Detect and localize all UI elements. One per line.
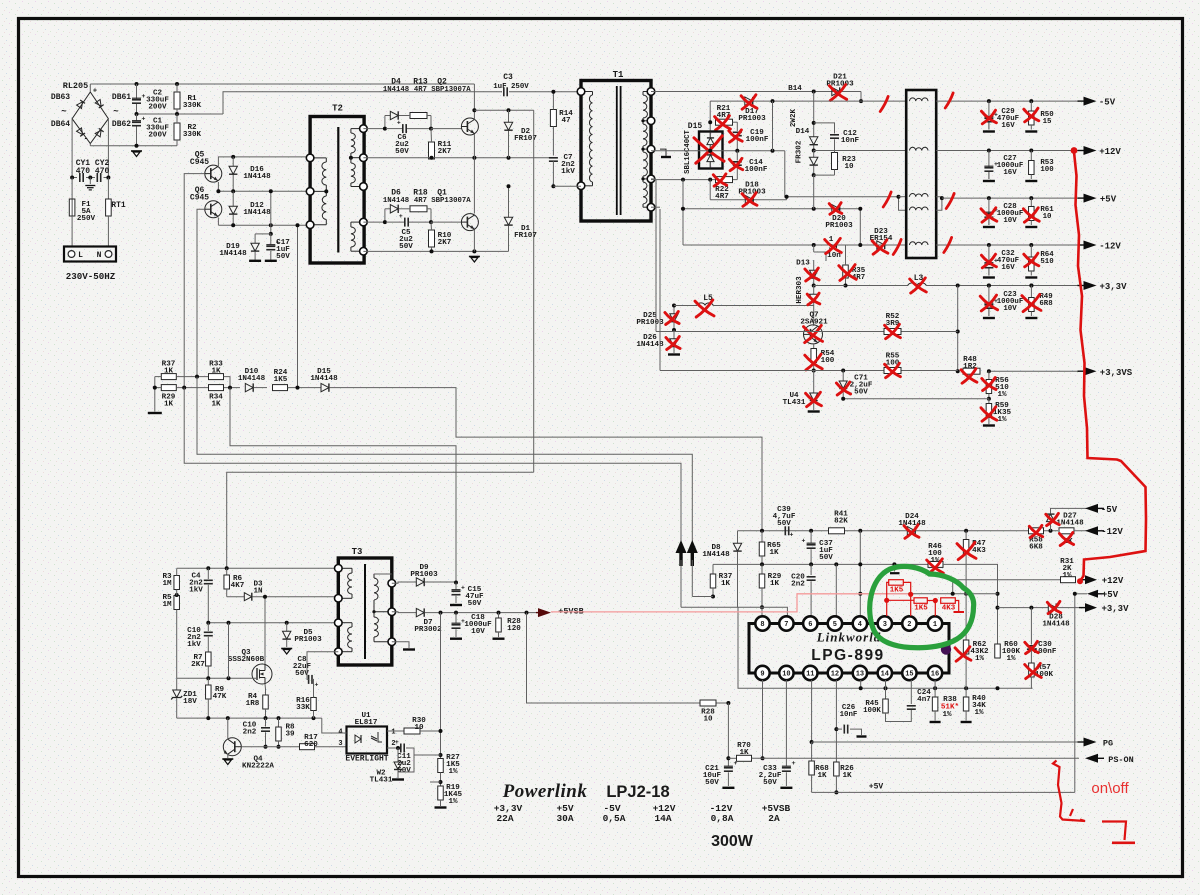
red junction c <box>933 598 938 603</box>
transistor Q7 <box>804 325 823 344</box>
junction <box>812 243 816 247</box>
inductor L5 <box>674 305 697 307</box>
pin 7 U2 <box>779 616 793 630</box>
pin 8 U2 <box>755 616 769 630</box>
diode D6 <box>385 208 390 210</box>
capacitor C26 <box>836 728 842 730</box>
svg-text:4K3: 4K3 <box>972 547 986 555</box>
wire R29 line <box>176 387 240 389</box>
svg-text:1K: 1K <box>211 400 221 408</box>
wire <box>407 128 431 130</box>
wire bridge left leg <box>71 119 73 177</box>
svg-text:4R7: 4R7 <box>414 86 427 94</box>
wire Q4 base line <box>241 746 299 748</box>
junction <box>933 686 937 690</box>
svg-text:10nF: 10nF <box>840 711 858 719</box>
junction <box>206 566 210 570</box>
junction <box>1073 592 1077 596</box>
svg-text:+: + <box>93 88 97 96</box>
junction <box>858 243 862 247</box>
wire Q2 collector <box>473 84 475 120</box>
diode D14 <box>810 137 818 145</box>
capacitor C1 <box>136 114 138 121</box>
label C31 cluster <box>813 245 815 252</box>
svg-text:+: + <box>142 116 146 123</box>
resistor R52 <box>884 329 901 335</box>
ground <box>722 787 734 789</box>
svg-text:LPG-899: LPG-899 <box>811 647 884 664</box>
junction <box>844 284 848 288</box>
junction <box>507 108 511 112</box>
svg-text:1%: 1% <box>1062 572 1072 580</box>
diode D10 <box>245 383 253 391</box>
svg-text:50V: 50V <box>399 243 413 251</box>
ground <box>1025 317 1037 319</box>
ground <box>780 787 792 789</box>
diode D7 <box>392 611 416 614</box>
junction <box>964 592 968 596</box>
transistor Q1 <box>461 214 478 231</box>
arrow -12V out2 <box>1085 526 1098 535</box>
wire <box>90 145 177 147</box>
resistor R11 <box>429 142 435 159</box>
fault X mark <box>872 241 888 253</box>
pin T2-R5 <box>360 247 368 255</box>
fault X mark <box>957 544 976 559</box>
junction <box>349 156 353 160</box>
diode D1 <box>508 186 510 217</box>
wire <box>72 177 77 179</box>
diode D19 <box>254 234 256 243</box>
junction <box>809 562 813 566</box>
junction <box>454 581 458 585</box>
junction <box>396 746 400 750</box>
svg-text:1N4148: 1N4148 <box>383 197 409 205</box>
junction <box>859 99 863 103</box>
pin T2-L1 <box>306 154 314 162</box>
svg-text:100K: 100K <box>863 707 881 715</box>
resistor R6 <box>226 568 228 575</box>
svg-text:-12V: -12V <box>1101 527 1123 537</box>
resistor R59 <box>988 399 990 404</box>
fault X mark <box>804 327 823 342</box>
junction <box>726 756 730 760</box>
resistor R29b <box>761 564 763 574</box>
svg-text:1M: 1M <box>162 580 172 588</box>
pin T1-R3 <box>647 145 655 153</box>
red check mark <box>893 240 901 255</box>
junction <box>858 562 862 566</box>
svg-text:3: 3 <box>338 740 342 748</box>
wire pin13 col <box>860 680 862 688</box>
ground <box>1025 276 1037 278</box>
junction <box>439 729 443 733</box>
wire R28-10 line <box>527 613 729 703</box>
wire Q4 emitter <box>227 754 229 758</box>
junction <box>1049 529 1053 533</box>
wire Q3 source <box>264 684 267 689</box>
junction <box>858 529 862 533</box>
svg-text:330K: 330K <box>183 102 202 110</box>
junction <box>439 780 443 784</box>
svg-text:~: ~ <box>113 107 118 117</box>
svg-text:47K: 47K <box>213 693 227 701</box>
resistor R40 <box>965 688 967 697</box>
svg-text:PG: PG <box>1103 739 1113 749</box>
wire D14 col lower <box>813 175 815 209</box>
svg-text:10: 10 <box>703 715 713 723</box>
svg-text:10: 10 <box>1043 213 1052 221</box>
red switch contact <box>1102 822 1126 841</box>
wire D15 column top <box>709 101 711 131</box>
ground <box>249 260 261 262</box>
ground <box>131 150 142 152</box>
red ground <box>954 611 965 613</box>
junction <box>834 727 838 731</box>
fault X mark <box>1025 665 1042 678</box>
fault X mark <box>829 86 846 100</box>
wire C10 line <box>208 622 338 624</box>
arrow PG <box>1084 738 1097 747</box>
shunt regulator U4 TL431 <box>813 371 815 394</box>
pin 5 U2 <box>828 616 842 630</box>
red repair wire right side <box>1074 152 1146 581</box>
arrow +12V <box>1084 146 1097 155</box>
resistor R54 <box>813 344 815 348</box>
green circle annotation <box>870 566 974 647</box>
junction <box>227 676 231 680</box>
svg-text:+: + <box>399 213 403 220</box>
junction <box>672 328 676 332</box>
wire PG line <box>812 741 1079 743</box>
resistor R60 <box>995 644 1001 658</box>
wire <box>1057 607 1079 609</box>
svg-text:50V: 50V <box>395 148 409 156</box>
ground <box>983 226 995 228</box>
wire pin11 col <box>811 680 813 742</box>
svg-text:1: 1 <box>391 729 395 737</box>
junction <box>106 176 110 180</box>
junction <box>834 562 838 566</box>
wire under-IC line <box>738 607 1032 688</box>
resistor R62 <box>965 594 967 640</box>
wire opto pin4 <box>322 718 347 733</box>
ground <box>1025 130 1037 132</box>
svg-text:1kV: 1kV <box>189 586 203 594</box>
red junction a <box>884 598 889 603</box>
signal arrow up 2 <box>687 540 698 553</box>
red check mark <box>946 194 954 209</box>
resistor R56 <box>988 371 990 379</box>
junction <box>1029 284 1033 288</box>
svg-text:1%: 1% <box>1006 655 1016 663</box>
svg-text:+5V: +5V <box>1100 195 1117 205</box>
svg-text:C945: C945 <box>190 194 209 203</box>
svg-text:33K: 33K <box>296 704 310 712</box>
junction <box>231 155 235 159</box>
svg-text:470 470: 470 470 <box>76 167 110 176</box>
svg-text:PS-ON: PS-ON <box>1108 755 1134 765</box>
junction <box>708 149 712 153</box>
wire T2 pin3 tap down <box>297 225 299 387</box>
wire +5V rail <box>942 197 1079 199</box>
svg-text:1K: 1K <box>164 367 174 375</box>
ground <box>668 353 680 355</box>
junction <box>269 189 273 193</box>
svg-text:100: 100 <box>1040 166 1054 174</box>
fault X mark <box>665 313 679 324</box>
junction <box>940 196 944 200</box>
pin 14 U2 <box>878 666 892 680</box>
wire pin15 col <box>910 680 912 704</box>
svg-text:50V: 50V <box>705 779 719 787</box>
wire C21 col <box>727 703 729 766</box>
pin T2-R1 <box>360 125 368 133</box>
junction <box>681 207 685 211</box>
diode D8 <box>737 531 739 543</box>
svg-text:PR1003: PR1003 <box>738 115 766 123</box>
wire mid line <box>651 150 785 152</box>
wire Q6 emitter line <box>217 218 219 226</box>
svg-text:N: N <box>97 251 102 260</box>
transistor Q6 <box>205 201 222 218</box>
svg-text:50V: 50V <box>777 520 791 528</box>
capacitor C37 <box>810 531 812 543</box>
junction <box>987 284 991 288</box>
wire <box>86 177 95 179</box>
svg-text:1%: 1% <box>448 798 458 806</box>
diode D27 <box>1050 522 1052 531</box>
resistor R16 <box>311 698 317 711</box>
fault X mark <box>1022 296 1041 311</box>
wire Q2 base branch <box>363 128 385 130</box>
wire <box>137 113 224 115</box>
arrow -5V <box>1084 97 1097 106</box>
junction <box>1029 196 1033 200</box>
diode D5 <box>286 623 288 631</box>
capacitor C39 <box>784 526 786 535</box>
wire Q1 base branch <box>363 221 385 223</box>
svg-text:2K7: 2K7 <box>438 239 452 247</box>
wire D25 col <box>673 306 675 315</box>
junction <box>812 90 816 94</box>
junction <box>277 716 281 720</box>
capacitor C33 <box>782 767 791 769</box>
svg-text:PR1003: PR1003 <box>410 571 438 579</box>
pin T3-L4 <box>335 648 343 656</box>
junction <box>264 716 268 720</box>
junction <box>841 369 845 373</box>
ground T3 lower <box>392 642 409 648</box>
wire divider left <box>155 376 162 378</box>
fault X mark <box>1047 602 1060 612</box>
fault X mark <box>839 266 856 280</box>
junction <box>383 220 387 224</box>
fault X mark <box>806 393 822 405</box>
junction <box>760 529 764 533</box>
svg-text:+3,3V: +3,3V <box>1101 604 1129 614</box>
fault X mark <box>729 131 742 141</box>
resistor R14 <box>550 110 556 127</box>
optocoupler U1 EL817 <box>347 727 388 754</box>
wire source bottom line <box>177 717 322 719</box>
junction <box>296 386 300 390</box>
wire pin5 col <box>835 564 837 616</box>
fault X mark <box>695 301 714 316</box>
capacitor C6 <box>402 124 404 133</box>
resistor R48 <box>963 368 980 374</box>
resistor R8 <box>278 718 280 727</box>
svg-text:0,5A: 0,5A <box>603 813 626 824</box>
pin T1-R1 <box>647 88 655 96</box>
junction <box>472 108 476 112</box>
resistor R65 <box>761 531 763 542</box>
junction <box>227 621 231 625</box>
svg-text:6: 6 <box>808 621 812 629</box>
junction <box>996 606 1000 610</box>
resistor R44 <box>1059 528 1074 534</box>
svg-text:200V: 200V <box>148 131 167 139</box>
wire pin8 line <box>681 607 787 616</box>
junction <box>987 369 991 373</box>
junction <box>231 223 235 227</box>
svg-text:1N: 1N <box>253 587 263 595</box>
resistor R27 <box>440 755 442 758</box>
svg-text:TL431: TL431 <box>370 776 393 784</box>
junction <box>987 149 991 153</box>
fault X mark <box>982 379 996 390</box>
junction <box>708 120 712 124</box>
red mod wire +5VSB to network <box>551 594 908 612</box>
svg-text:2K7: 2K7 <box>438 148 452 156</box>
pin 9 U2 <box>755 666 769 680</box>
svg-text:Powerlink: Powerlink <box>502 781 588 802</box>
capacitor C15 <box>455 583 457 590</box>
resistor R18 <box>410 206 427 212</box>
fault X mark <box>713 175 726 185</box>
svg-text:4K7: 4K7 <box>231 582 245 590</box>
wire C19 col <box>736 122 738 131</box>
svg-text:100nF: 100nF <box>746 136 769 144</box>
svg-text:15: 15 <box>1043 118 1052 126</box>
wire R46 corner <box>943 564 998 644</box>
fault X mark <box>741 96 757 108</box>
junction <box>551 184 555 188</box>
pin 15 U2 <box>902 666 916 680</box>
ground <box>661 156 671 158</box>
wire standby feed down <box>227 472 534 568</box>
wire +3.3V fb line <box>998 607 1049 609</box>
junction <box>859 686 863 690</box>
ground <box>983 180 995 182</box>
wire Q6-base net down <box>197 377 692 541</box>
shunt regulator W2 TL431 <box>397 748 399 762</box>
resistor R70 <box>737 755 752 761</box>
wire Q1 base <box>431 221 461 223</box>
junction <box>760 605 764 609</box>
resistor R35 <box>825 258 827 261</box>
pin 12 U2 <box>828 666 842 680</box>
capacitor C30 <box>1030 608 1032 645</box>
ground <box>469 256 480 258</box>
wire D20 line <box>682 180 684 245</box>
diode D15b <box>321 383 329 391</box>
junction <box>956 369 960 373</box>
wire bridge right leg <box>107 119 109 177</box>
resistor R23 <box>832 153 838 170</box>
svg-text:+12V: +12V <box>1102 576 1124 586</box>
svg-text:1: 1 <box>933 621 937 629</box>
junction <box>672 304 676 308</box>
svg-text:1%: 1% <box>448 768 458 776</box>
mosfet Q3 SSS2N60B <box>252 664 272 684</box>
wire R33 corner <box>224 377 231 388</box>
svg-text:DB62: DB62 <box>112 120 131 129</box>
svg-text:16V: 16V <box>1001 122 1015 130</box>
resistor R1 <box>174 92 180 109</box>
svg-text:50V: 50V <box>468 600 482 608</box>
wire +5V fb <box>1075 593 1087 595</box>
svg-text:3: 3 <box>883 621 887 629</box>
diode D14b <box>813 151 815 158</box>
rectifier D15 SBL16C40CT <box>699 132 723 169</box>
fault X mark <box>961 370 977 382</box>
wire <box>89 84 91 92</box>
svg-text:+5V: +5V <box>869 783 884 792</box>
svg-text:16V: 16V <box>1001 264 1015 272</box>
junction <box>507 156 511 160</box>
junction <box>206 676 210 680</box>
svg-text:1%: 1% <box>975 655 985 663</box>
svg-text:13: 13 <box>856 671 864 679</box>
resistor R28b <box>498 613 500 618</box>
junction <box>858 207 862 211</box>
svg-text:1%: 1% <box>997 391 1007 399</box>
capacitor C3 <box>503 87 505 96</box>
pin T3-L2 <box>335 595 343 603</box>
fault X mark <box>981 255 996 267</box>
svg-text:DB61: DB61 <box>112 93 131 102</box>
resistor R21 <box>716 119 733 125</box>
red check mark <box>945 93 953 108</box>
svg-text:DB63: DB63 <box>51 93 70 102</box>
wire mid line Q5/Q6 <box>217 182 219 191</box>
svg-text:9: 9 <box>760 671 764 679</box>
svg-text:L: L <box>78 251 83 260</box>
wire <box>1074 530 1098 532</box>
wire +5V winding link <box>899 197 907 211</box>
capacitor C19 <box>733 131 742 133</box>
junction <box>429 220 433 224</box>
svg-text:5: 5 <box>833 621 837 629</box>
red junction b <box>908 592 913 597</box>
fault X mark <box>1046 514 1059 524</box>
svg-text:82K: 82K <box>834 517 848 525</box>
capacitor C12 <box>814 123 835 134</box>
svg-text:250V: 250V <box>77 215 96 223</box>
wire aux gate link <box>228 623 230 679</box>
junction <box>507 184 511 188</box>
resistor R46 <box>928 561 943 567</box>
svg-text:1%: 1% <box>974 709 984 717</box>
svg-text:2: 2 <box>907 621 911 629</box>
capacitor C8 <box>308 675 310 684</box>
wire <box>254 387 267 389</box>
red junction +12V <box>1071 147 1078 154</box>
junction <box>996 686 1000 690</box>
wire R27 tap to fb <box>430 781 441 783</box>
svg-text:1K: 1K <box>769 549 779 557</box>
